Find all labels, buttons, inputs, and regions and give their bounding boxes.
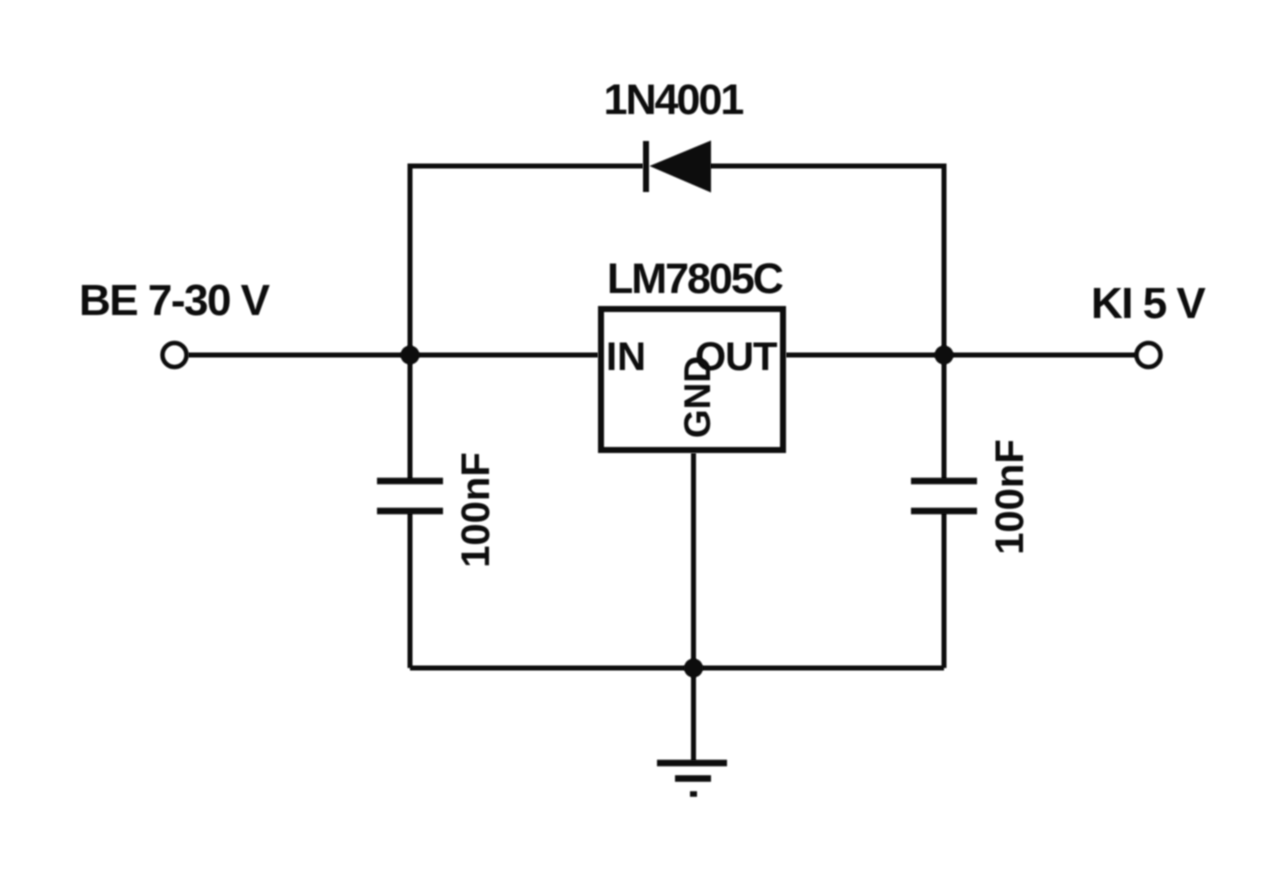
svg-text:100nF: 100nF <box>988 439 1032 555</box>
wire: left node to IN pin of regulator <box>410 353 598 358</box>
svg-text:GND: GND <box>677 356 718 438</box>
svg-text:LM7805C: LM7805C <box>607 255 783 303</box>
node: input junction dot <box>401 346 420 365</box>
terminal: BE input open circle <box>163 343 187 367</box>
node: output junction dot <box>935 346 954 365</box>
wire: top rail right part from diode to right vertical <box>710 166 944 355</box>
svg-text:100nF: 100nF <box>454 452 498 568</box>
wire: C1 bottom plate down to bottom rail <box>408 511 413 668</box>
diode D1 1N4001 (cathode bar + triangle pointing left) <box>646 141 710 192</box>
wire: GND pin of regulator down to bottom rail <box>691 453 696 668</box>
svg-text:KI 5 V: KI 5 V <box>1091 279 1206 328</box>
capacitor C2 100nF (right) plates <box>911 481 977 511</box>
svg-text:IN: IN <box>606 335 646 379</box>
terminal: KI output open circle <box>1137 343 1161 367</box>
svg-text:1N4001: 1N4001 <box>604 76 744 124</box>
svg-text:BE 7-30 V: BE 7-30 V <box>79 276 271 325</box>
ground symbol <box>657 763 727 794</box>
wire: C2 bottom plate down to bottom rail <box>942 511 947 668</box>
wire: bottom rail node down to ground symbol <box>691 668 696 761</box>
wire: left vertical from node down to C1 top plate <box>408 355 413 481</box>
wire: right node to KI terminal <box>944 353 1136 358</box>
capacitor C1 100nF (left) plates <box>377 481 443 511</box>
wire: input lead from BE terminal to left node <box>188 353 410 358</box>
wire: top rail from left node up and across (diode branch, left part) <box>410 166 643 355</box>
wire: right vertical from node down to C2 top plate <box>942 355 947 481</box>
op-amp/regulator U1 LM7805C body <box>601 309 783 450</box>
node: ground junction dot <box>684 659 703 678</box>
wire: bottom rail <box>410 666 944 671</box>
wire: OUT pin of regulator to right node <box>786 353 944 358</box>
